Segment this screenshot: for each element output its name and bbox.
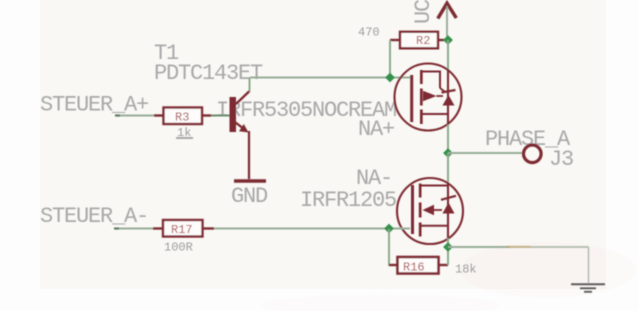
wire STEUER_A- to R17 [114, 228, 153, 230]
resistor R2 [390, 32, 448, 49]
supply arrow UC [438, 3, 457, 40]
svg-text:R2: R2 [416, 34, 430, 48]
resistor R3 [154, 108, 211, 125]
junction node source [443, 242, 453, 252]
wire R16 right up to source node [447, 247, 449, 265]
resistor R17 [153, 220, 214, 237]
mosfet U P-channel IRFR5305 [395, 64, 462, 131]
svg-text:18k: 18k [455, 263, 477, 277]
junction node phase [443, 148, 453, 158]
transistor Q T1 (PDTC143ET) [230, 91, 250, 179]
earth ground symbol [571, 284, 605, 292]
svg-text:UC: UC [411, 0, 436, 24]
svg-text:IRFR1205: IRFR1205 [300, 188, 396, 213]
svg-text:100R: 100R [164, 241, 193, 255]
watermark smudge [260, 242, 636, 311]
wire phase to connector J3 [448, 152, 523, 154]
connector pad J3 [524, 145, 542, 163]
wire STEUER_A+ to R3 [115, 115, 154, 117]
resistor R16 [389, 257, 448, 274]
wire source node to earth [448, 247, 589, 283]
wire R3 to T1 base [211, 115, 230, 117]
svg-text:NA+: NA+ [358, 117, 394, 142]
wire N-FET source to node [447, 238, 449, 247]
mosfet U N-channel IRFR1205 [397, 178, 463, 244]
junction node P-FET gate [385, 73, 395, 83]
svg-text:STEUER_A+: STEUER_A+ [40, 93, 148, 118]
svg-text:STEUER_A-: STEUER_A- [40, 204, 148, 229]
junction node N-FET gate [384, 224, 394, 234]
wire R17 to N-FET gate [214, 228, 410, 230]
ground GND bar [234, 179, 266, 183]
R3 value 1k [176, 126, 193, 140]
svg-text:PDTC143ET: PDTC143ET [154, 61, 263, 86]
svg-text:R16: R16 [403, 261, 425, 275]
wire UC rail above P-FET [447, 40, 449, 70]
svg-text:R3: R3 [175, 111, 189, 125]
junction node R2 right [443, 35, 453, 45]
svg-text:R17: R17 [171, 223, 193, 237]
wire T1 collector up [249, 78, 251, 92]
wire P-FET drain to phase node [447, 125, 449, 154]
wire T1 collector to P-FET gate [250, 77, 411, 79]
wire gate node down to R16 [389, 229, 398, 265]
svg-text:470: 470 [358, 26, 380, 40]
svg-text:GND: GND [231, 184, 268, 209]
wire R2 left down to gate node [389, 40, 391, 78]
svg-text:J3: J3 [549, 147, 573, 172]
wire phase down to N-FET [447, 153, 449, 184]
